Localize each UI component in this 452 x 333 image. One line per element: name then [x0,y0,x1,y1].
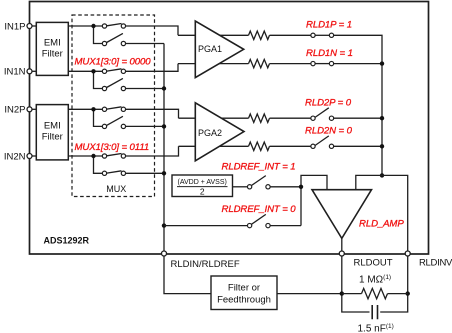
junction bus IN2P alt [162,124,166,128]
svg-text:ADS1292R: ADS1292R [44,236,90,246]
wire PGA1 top row to RLD1P switch [178,34,311,36]
capacitor C1 plates [372,305,377,319]
wire RLD1P to bus [334,35,382,63]
junction IN2N tap [91,154,95,158]
wire IN1P alt to RLDIN bus [126,43,164,45]
wire ref box to RLDREF1 switch [233,186,248,188]
wire IN1P tap down [94,26,103,44]
EMI filter box 1 [36,22,68,75]
wire IN1P main switch out [126,26,178,35]
junction bus RLD2N [380,144,384,148]
wire IN2N alt to RLDIN bus [126,172,164,174]
switch RLD1N closed [311,61,334,65]
wire PGA2 top row to RLD2P switch [179,117,311,119]
op-amp RLD_AMP [312,190,372,239]
resistor R5 1Mohm [362,288,388,298]
junction amp neg node [299,185,303,189]
wire IN1N tap down [94,71,103,88]
svg-text:(AVDD + AVSS): (AVDD + AVSS) [178,179,227,186]
wire RLDINV down to cap loop [380,254,408,313]
wire RLDIN external [164,254,211,294]
svg-text:RLD2N = 0: RLD2N = 0 [305,126,353,137]
wire RLDREF0 to amp node [270,225,301,227]
wire feedback to RLDINV [382,175,408,253]
pin RLDOUT [339,251,344,256]
wire PGA2 bottom row to RLD2N switch [179,145,311,147]
pin RLDIN/RLDREF [162,251,167,256]
switch RLDREF_INT0 open [247,214,270,227]
switch S4b IN2N alt closed [102,171,125,176]
wire amp output to RLDOUT [341,238,343,253]
resistor R2 RLD1N [249,59,270,67]
svg-text:Filter: Filter [42,48,63,59]
MUX dashed box [72,15,155,197]
switch S3b IN2P alt open [102,116,125,128]
svg-text:1 MΩ(1): 1 MΩ(1) [359,274,391,286]
reference box (AVDD+AVSS)/2 [172,175,233,197]
resistor R1 RLD1P [249,31,270,39]
svg-text:RLD2P = 0: RLD2P = 0 [305,98,352,109]
wire RLD2N to bus [334,145,382,147]
svg-text:EMI: EMI [44,37,61,48]
wire RLD1N to bus [334,63,382,65]
wire IN2P main switch out [126,109,179,118]
RLDIN central bus vertical [163,44,165,254]
junction IN1N tap [91,69,95,73]
switch S2b IN1N alt open [102,78,125,90]
svg-text:RLDIN/RLDREF: RLDIN/RLDREF [171,259,240,270]
RLD bus vertical right [381,64,383,176]
wire IN2P alt to RLDIN bus [126,125,164,127]
svg-text:IN1P: IN1P [4,21,25,32]
pin IN2N [27,154,32,159]
wire amp neg input node vertical [301,175,327,225]
pin IN2P [27,107,32,112]
resistor R4 RLD2N [249,142,270,150]
svg-text:Feedthrough: Feedthrough [217,294,271,305]
junction bus RLD2P [380,116,384,120]
junction RLDOUT node [340,291,344,295]
switch S4a IN2N main closed [102,154,125,159]
wire filter to RLDOUT node [277,293,342,295]
switch S2a IN1N main closed [102,69,125,74]
junction bus RLDREF0 [162,223,166,227]
svg-text:RLDREF_INT = 1: RLDREF_INT = 1 [222,162,296,173]
svg-text:IN2P: IN2P [4,105,25,116]
junction IN2P tap [91,107,95,111]
wire PGA1 bottom row to RLD1N switch [178,63,311,65]
switch S1a IN1P main closed [102,24,125,29]
pin RLDINV [405,251,410,256]
svg-text:IN2N: IN2N [4,151,26,162]
svg-text:RLD1N = 1: RLD1N = 1 [306,48,353,59]
wire RLDREF1 to amp node [270,186,301,188]
wire IN2P to EMI filter [30,108,37,110]
wire IN1N main switch out [126,64,178,72]
svg-text:MUX1[3:0] = 0000: MUX1[3:0] = 0000 [75,56,152,67]
junction bus IN2N alt [162,171,166,175]
junction bus amp input [380,173,384,177]
junction IN1P tap [91,24,95,28]
svg-text:1.5 nF(1): 1.5 nF(1) [358,323,394,333]
wire IN2N main switch out [126,146,179,156]
svg-text:2: 2 [200,187,205,197]
wire IN1P to EMI filter [30,25,37,27]
wire EMI2 out IN2P row [68,108,102,110]
svg-text:PGA1: PGA1 [198,44,222,54]
svg-text:PGA2: PGA2 [198,128,222,138]
wire EMI2 out IN2N row [68,155,102,157]
junction RLDINV node [406,291,410,295]
svg-text:RLD_AMP: RLD_AMP [359,218,404,229]
svg-text:Filter or: Filter or [228,282,260,293]
filter box external [211,276,277,310]
wire IN2N to EMI filter [30,155,37,157]
wire IN2P tap down [94,109,103,126]
pin IN1N [27,69,32,74]
chip boundary ADS1292R [30,2,429,255]
junction bus IN1N alt [162,86,166,90]
wire RLD2P to bus [334,117,382,119]
pin IN1P [27,24,32,29]
svg-text:EMI: EMI [44,121,61,132]
wire IN2N tap down [94,156,103,173]
svg-text:RLDREF_INT = 0: RLDREF_INT = 0 [222,204,297,215]
wire IN1N to EMI filter [30,70,37,72]
EMI filter box 2 [36,105,68,160]
wire EMI1 out IN1P row [68,25,102,27]
svg-text:Filter: Filter [42,132,63,143]
switch RLD2N open [311,136,334,149]
svg-text:RLDINV: RLDINV [419,258,452,269]
svg-text:RLD1P = 1: RLD1P = 1 [306,20,352,31]
switch S3a IN2P main closed [102,107,125,112]
svg-text:RLDOUT: RLDOUT [354,258,393,269]
switch RLD1P closed [311,33,334,37]
switch S1b IN1P alt open [102,33,125,45]
wire IN1N alt to RLDIN bus [126,88,164,90]
junction bus RLD1N [380,61,384,65]
wire EMI1 out IN1N row [68,70,102,72]
wire amp pos input stub [356,175,382,190]
wire RLDOUT down to cap loop [342,254,370,313]
svg-text:IN1N: IN1N [4,67,26,78]
op-amp PGA1 [195,21,243,78]
switch RLD2P open [311,108,334,121]
svg-text:MUX1[3:0] = 0111: MUX1[3:0] = 0111 [75,142,150,153]
svg-text:MUX: MUX [106,184,126,194]
wire 1M resistor row [342,293,408,295]
resistor R3 RLD2P [249,114,270,122]
op-amp PGA2 [195,103,244,161]
switch RLDREF_INT1 open [247,176,270,189]
wire RLDREF0 row [164,225,247,227]
